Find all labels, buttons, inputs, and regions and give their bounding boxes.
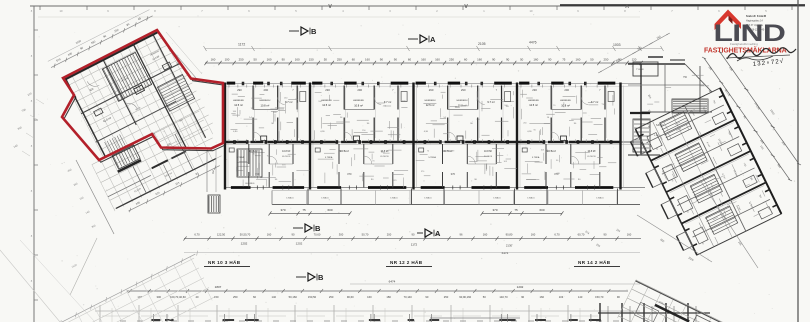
svg-text:70,60: 70,60	[314, 233, 321, 237]
svg-text:1003: 1003	[613, 43, 621, 47]
svg-text:200: 200	[387, 233, 392, 237]
svg-text:12.5 m²: 12.5 m²	[234, 103, 243, 107]
svg-text:90: 90	[506, 58, 510, 62]
svg-text:TYKOR: TYKOR	[636, 69, 644, 71]
svg-text:600: 600	[327, 208, 332, 212]
svg-text:750: 750	[683, 76, 688, 79]
svg-text:6,70: 6,70	[554, 233, 560, 237]
svg-text:160: 160	[267, 233, 272, 237]
svg-text:90: 90	[282, 58, 286, 62]
svg-text:4476: 4476	[529, 41, 537, 45]
svg-text:140: 140	[271, 295, 276, 299]
svg-text:160: 160	[211, 58, 216, 62]
svg-text:50,160: 50,160	[289, 295, 298, 299]
svg-text:90,80: 90,80	[506, 233, 513, 237]
svg-text:290: 290	[564, 88, 569, 92]
svg-text:6474: 6474	[389, 280, 396, 284]
svg-text:30.5m²: 30.5m²	[340, 149, 349, 153]
svg-text:290: 290	[263, 88, 268, 92]
svg-text:KLÖKOS: KLÖKOS	[587, 155, 596, 158]
svg-text:1807: 1807	[215, 285, 222, 289]
svg-text:5.WALD: 5.WALD	[527, 197, 535, 200]
svg-text:10.8 m²: 10.8 m²	[561, 104, 570, 108]
svg-text:HERRERU: HERRERU	[528, 100, 539, 102]
svg-text:90: 90	[521, 295, 524, 299]
svg-text:A: A	[435, 229, 441, 238]
svg-text:10.8 M²: 10.8 M²	[282, 150, 290, 153]
svg-text:B: B	[318, 273, 324, 282]
svg-text:160: 160	[367, 295, 372, 299]
svg-text:50: 50	[590, 58, 594, 62]
svg-text:75: 75	[302, 208, 306, 212]
svg-text:1172: 1172	[238, 43, 245, 47]
svg-text:9.7 m²: 9.7 m²	[591, 100, 598, 104]
svg-text:5.WALD: 5.WALD	[286, 197, 294, 200]
svg-text:160: 160	[365, 58, 370, 62]
svg-text:Hagtregsbsc 14: Hagtregsbsc 14	[746, 20, 763, 23]
svg-text:160: 160	[421, 58, 426, 62]
svg-text:160: 160	[295, 58, 300, 62]
svg-text:160: 160	[435, 58, 440, 62]
svg-text:1202: 1202	[517, 285, 524, 289]
svg-text:40: 40	[196, 295, 199, 299]
svg-text:250: 250	[233, 295, 238, 299]
svg-text:150,70: 150,70	[595, 295, 604, 299]
svg-text:10.8 m²: 10.8 m²	[261, 104, 270, 108]
svg-text:12.5 m²: 12.5 m²	[529, 103, 538, 107]
svg-text:50: 50	[324, 58, 328, 62]
svg-text:1172: 1172	[411, 243, 418, 247]
svg-text:9.7 m²: 9.7 m²	[285, 100, 292, 104]
svg-text:HERRERU: HERRERU	[353, 100, 364, 102]
svg-text:160: 160	[540, 295, 545, 299]
svg-text:5.WALD: 5.WALD	[596, 197, 604, 200]
svg-text:Sreb-Ut: 8 Am45: Sreb-Ut: 8 Am45	[746, 14, 767, 18]
svg-text:370: 370	[280, 208, 285, 212]
svg-text:103: 103	[559, 295, 564, 299]
svg-text:HERRERU: HERRERU	[457, 100, 468, 102]
svg-text:150: 150	[214, 295, 219, 299]
svg-text:753 37 Uppsala: 753 37 Uppsala	[746, 24, 763, 27]
svg-text:50: 50	[520, 58, 524, 62]
svg-text:75: 75	[514, 208, 518, 212]
svg-text:150: 150	[309, 58, 314, 62]
svg-text:90,90,160: 90,90,160	[459, 295, 471, 299]
svg-text:5.TRFA: 5.TRFA	[532, 156, 540, 159]
svg-text:50: 50	[483, 295, 486, 299]
svg-text:90,60: 90,60	[347, 295, 354, 299]
svg-text:50,70: 50,70	[362, 233, 369, 237]
svg-text:1202: 1202	[296, 242, 303, 246]
svg-text:B: B	[315, 224, 321, 233]
svg-text:9.7 m²: 9.7 m²	[487, 100, 494, 104]
svg-text:60: 60	[408, 58, 412, 62]
svg-text:90: 90	[548, 58, 552, 62]
svg-text:122,50: 122,50	[217, 233, 226, 237]
svg-text:250: 250	[329, 295, 334, 299]
svg-text:50,50,70: 50,50,70	[240, 233, 251, 237]
svg-text:1202: 1202	[241, 242, 248, 246]
svg-text:50: 50	[253, 58, 257, 62]
svg-text:160: 160	[483, 233, 488, 237]
svg-text:300: 300	[339, 233, 344, 237]
svg-text:96: 96	[460, 233, 463, 237]
svg-text:Fastighetsförmedling: Fastighetsförmedling	[730, 42, 758, 46]
svg-text:140,70: 140,70	[499, 295, 508, 299]
svg-text:160: 160	[575, 58, 580, 62]
svg-text:NR 12 2 HÄB: NR 12 2 HÄB	[390, 259, 423, 265]
svg-text:60: 60	[253, 295, 256, 299]
svg-text:90: 90	[394, 58, 398, 62]
svg-text:90: 90	[292, 233, 295, 237]
svg-text:370: 370	[347, 172, 352, 176]
svg-text:90: 90	[617, 295, 620, 299]
svg-text:290: 290	[461, 88, 466, 92]
svg-text:∨: ∨	[327, 3, 332, 10]
svg-text:6,70: 6,70	[194, 233, 200, 237]
svg-text:HERRERU: HERRERU	[425, 100, 436, 102]
svg-text:250: 250	[444, 295, 449, 299]
svg-text:5.TRFA: 5.TRFA	[428, 156, 436, 159]
svg-text:100: 100	[225, 58, 230, 62]
svg-text:NR 14 2 HÄB: NR 14 2 HÄB	[578, 259, 611, 265]
svg-text:120: 120	[632, 58, 637, 62]
svg-text:300: 300	[156, 295, 161, 299]
svg-text:180: 180	[386, 295, 391, 299]
svg-text:90: 90	[492, 58, 496, 62]
svg-text:2105: 2105	[478, 42, 486, 46]
svg-text:75: 75	[562, 58, 566, 62]
svg-text:290: 290	[429, 88, 434, 92]
svg-text:∧: ∧	[624, 3, 629, 10]
svg-text:290: 290	[237, 88, 242, 92]
svg-text:90: 90	[380, 58, 384, 62]
svg-text:160: 160	[267, 58, 272, 62]
svg-text:90: 90	[604, 233, 607, 237]
svg-text:HERRERU: HERRERU	[259, 100, 270, 102]
svg-text:KLÖKOS: KLÖKOS	[282, 155, 291, 158]
svg-text:100,70,40,60: 100,70,40,60	[170, 295, 186, 299]
svg-text:10.8 M²: 10.8 M²	[484, 150, 492, 153]
svg-text:600: 600	[539, 208, 544, 212]
svg-text:370: 370	[492, 208, 497, 212]
svg-text:290: 290	[325, 88, 330, 92]
svg-text:12.5 m²: 12.5 m²	[322, 103, 331, 107]
svg-text:5.WALD: 5.WALD	[424, 197, 432, 200]
svg-text:160: 160	[533, 58, 538, 62]
svg-text:150,50: 150,50	[308, 295, 317, 299]
svg-text:6474: 6474	[502, 251, 509, 255]
svg-text:BLONDS: BLONDS	[246, 183, 256, 185]
svg-text:160: 160	[627, 233, 632, 237]
svg-text:250: 250	[337, 58, 342, 62]
svg-text:30.5m²: 30.5m²	[547, 149, 556, 153]
svg-text:160: 160	[477, 58, 482, 62]
svg-text:2130: 2130	[506, 244, 513, 248]
svg-text:NR 10 3 HÄB: NR 10 3 HÄB	[208, 259, 241, 265]
svg-text:HERRERU: HERRERU	[560, 100, 571, 102]
svg-text:290: 290	[357, 88, 362, 92]
svg-text:∨: ∨	[463, 3, 468, 10]
svg-text:370: 370	[451, 172, 456, 176]
svg-text:160: 160	[531, 233, 536, 237]
svg-text:10.8 m²: 10.8 m²	[354, 104, 363, 108]
svg-text:A: A	[430, 35, 436, 44]
svg-text:HERRERU: HERRERU	[233, 100, 244, 102]
svg-text:250: 250	[603, 58, 608, 62]
svg-text:90: 90	[412, 233, 415, 237]
svg-text:60: 60	[464, 58, 468, 62]
svg-text:HERRERU: HERRERU	[321, 100, 332, 102]
svg-text:70,140: 70,140	[404, 295, 413, 299]
svg-text:143: 143	[578, 295, 583, 299]
svg-text:290: 290	[532, 88, 537, 92]
svg-text:250: 250	[239, 58, 244, 62]
svg-text:Tfn 018-12 35 40: Tfn 018-12 35 40	[746, 29, 765, 32]
svg-text:5.WALD: 5.WALD	[390, 197, 398, 200]
svg-text:60: 60	[352, 58, 356, 62]
svg-text:10.8 m²: 10.8 m²	[458, 104, 467, 108]
svg-text:90: 90	[425, 295, 428, 299]
svg-text:60,70: 60,70	[578, 233, 585, 237]
svg-text:9.7 m²: 9.7 m²	[384, 100, 391, 104]
svg-text:KLÖKOS: KLÖKOS	[380, 155, 389, 158]
svg-text:5.TRFA: 5.TRFA	[325, 156, 333, 159]
svg-text:B: B	[311, 27, 317, 36]
svg-text:5.WALD: 5.WALD	[493, 197, 501, 200]
svg-text:5.WALD: 5.WALD	[321, 197, 329, 200]
svg-text:250: 250	[449, 58, 454, 62]
